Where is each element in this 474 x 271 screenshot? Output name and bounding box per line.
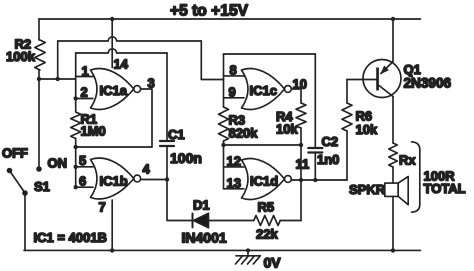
svg-text:SPKR: SPKR xyxy=(349,182,386,197)
gate IC1d (NOR) xyxy=(242,159,285,200)
resistor R3 xyxy=(219,107,229,141)
svg-text:1: 1 xyxy=(82,64,89,79)
resistor R1 xyxy=(71,112,81,139)
svg-text:R5: R5 xyxy=(258,200,275,215)
svg-text:Rx: Rx xyxy=(399,153,416,168)
junction rail/H1 xyxy=(37,77,41,81)
svg-text:ON: ON xyxy=(48,156,68,171)
wire pin12 stub xyxy=(224,166,245,168)
svg-text:C2: C2 xyxy=(322,134,339,149)
junction pin2 tie xyxy=(74,96,78,100)
junction R4 line/H3 xyxy=(299,143,303,147)
svg-text:IN4001: IN4001 xyxy=(182,230,227,246)
diode D1 IN4001 xyxy=(192,214,194,228)
svg-text:IC1d: IC1d xyxy=(250,174,278,189)
capacitor C1 xyxy=(160,140,174,142)
junction R4 line/pin11 wire xyxy=(299,178,303,182)
junction rail/pin14 xyxy=(110,17,114,21)
wire pin10 output to R4 xyxy=(291,89,301,103)
wire C1 bottom lead xyxy=(166,147,168,180)
wire pin4 output xyxy=(141,179,167,181)
speaker SPKR xyxy=(385,183,398,196)
OFF contact xyxy=(7,168,13,174)
wire pin11 node up to R6 xyxy=(346,131,348,180)
svg-text:IC1 = 4001B: IC1 = 4001B xyxy=(34,230,107,245)
svg-text:11: 11 xyxy=(296,157,310,172)
svg-text:OFF: OFF xyxy=(2,146,28,161)
svg-text:IC1b: IC1b xyxy=(100,174,128,189)
svg-text:12: 12 xyxy=(227,154,241,169)
wire B: IC1a in to C1 top (hop over pin14 line) xyxy=(76,49,167,53)
gate IC1b (NOR) xyxy=(91,158,134,199)
resistor R5 xyxy=(254,216,280,226)
resistor R2 xyxy=(35,40,45,70)
svg-text:9: 9 xyxy=(229,85,236,100)
wire S1 pole to 0V rail xyxy=(24,193,26,250)
wire pin14 from +V rail xyxy=(111,19,113,68)
svg-text:10k: 10k xyxy=(356,122,378,137)
svg-text:IC1c: IC1c xyxy=(250,83,277,98)
svg-text:13: 13 xyxy=(227,176,241,191)
wire D1 to R5 xyxy=(209,220,254,222)
junction pin5 tie xyxy=(74,165,78,169)
junction R3/H3/IC1d inputs xyxy=(221,143,225,147)
capacitor C2 xyxy=(308,147,322,149)
wire IC1c input node to C2 top xyxy=(224,53,316,55)
wire pin1 stub xyxy=(76,76,93,78)
resistor R4 xyxy=(296,103,306,128)
wire pin4 node down to D1 xyxy=(167,180,193,221)
wire Rx to speaker xyxy=(392,167,394,183)
transistor Q1 2N3906 xyxy=(363,60,401,98)
wire pin7 to 0V rail xyxy=(111,200,113,250)
wire pin5 stub xyxy=(76,166,93,168)
ON contact xyxy=(36,166,42,172)
wire: R1 bottom to IC1b inputs xyxy=(75,139,77,188)
S1 pole xyxy=(22,190,28,196)
junction speaker/0V rail xyxy=(391,248,395,252)
wire speaker to 0V rail xyxy=(392,196,394,250)
wire pin13 stub xyxy=(224,188,245,190)
svg-text:100k: 100k xyxy=(6,49,36,64)
svg-text:D1: D1 xyxy=(193,198,210,213)
svg-text:7: 7 xyxy=(99,200,106,215)
svg-text:3: 3 xyxy=(148,76,155,91)
wire H1 rail to IC1a input node xyxy=(39,78,76,80)
wire C1 top lead xyxy=(166,53,168,140)
wire: +V top rail xyxy=(39,18,421,20)
svg-text:4: 4 xyxy=(143,162,151,177)
junction wireA drop/H1 xyxy=(56,77,60,81)
wire R6 top to Q1 base xyxy=(346,80,348,104)
wire pin11 output to R6 branch xyxy=(291,179,347,181)
resistor R6 xyxy=(342,103,352,131)
wire pin8 stub xyxy=(224,75,245,77)
svg-text:10k: 10k xyxy=(276,122,298,137)
junction rail/emitter xyxy=(391,17,395,21)
bracket 100R total xyxy=(412,142,420,212)
svg-text:100n: 100n xyxy=(170,150,202,166)
junction C2/pin11 wire xyxy=(313,178,317,182)
svg-text:C1: C1 xyxy=(168,127,185,142)
wire pin6 stub xyxy=(76,186,93,188)
svg-text:1M0: 1M0 xyxy=(81,124,106,139)
resistor Rx xyxy=(389,143,398,167)
svg-text:8: 8 xyxy=(230,63,237,78)
wire A right drop to IC1c input vert xyxy=(201,41,223,80)
wire: left rail upper xyxy=(38,19,40,40)
junction pin6 tie xyxy=(74,185,78,189)
wire C2 top lead xyxy=(314,54,316,147)
wire H2: R1 bottom to pin3 node xyxy=(76,146,152,148)
wire R4 bottom vertical to R5 xyxy=(300,128,302,221)
wire A left drop xyxy=(57,41,59,79)
ground 0V xyxy=(247,250,249,255)
svg-text:0V: 0V xyxy=(264,255,282,271)
wire pin2 stub xyxy=(76,98,93,100)
wire Q1 emitter to +V rail xyxy=(392,19,394,62)
switch lever xyxy=(11,172,26,193)
wire H3: R3 bottom to R4 bottom xyxy=(224,144,302,146)
wire Q1 base lead xyxy=(347,79,376,81)
wire A: IC1a in to IC1c in (hop over pin14 line) xyxy=(58,37,202,41)
wire IC1c input tie vertical xyxy=(223,54,225,107)
wire Q1 collector to Rx xyxy=(392,97,394,144)
svg-text:5: 5 xyxy=(79,153,86,168)
wire: IC1a input tie vertical / to R1 xyxy=(75,53,77,112)
wire pin9 stub xyxy=(224,97,245,99)
wire C2 bottom lead xyxy=(314,154,316,181)
gate IC1a (NOR) xyxy=(91,69,134,110)
junction pin4/C1/D1 xyxy=(165,177,169,181)
wire R3 bottom to IC1d inputs xyxy=(223,141,225,189)
svg-text:14: 14 xyxy=(114,57,129,72)
svg-text:+5 to +15V: +5 to +15V xyxy=(170,3,249,20)
svg-text:2: 2 xyxy=(81,85,88,100)
wire: left rail to ON contact xyxy=(38,70,40,169)
svg-text:6: 6 xyxy=(79,174,86,189)
svg-text:TOTAL: TOTAL xyxy=(424,181,466,196)
svg-text:2N3906: 2N3906 xyxy=(404,76,452,91)
svg-text:1n0: 1n0 xyxy=(317,152,339,167)
svg-text:22k: 22k xyxy=(256,227,278,242)
junction pin7/0V rail xyxy=(110,248,114,252)
wire pin3 output down xyxy=(141,89,152,147)
svg-text:IC1a: IC1a xyxy=(100,83,128,98)
junction R1/H2/IC1b inputs xyxy=(74,145,78,149)
svg-text:820k: 820k xyxy=(229,126,259,141)
wire R5 to vertical xyxy=(280,220,301,222)
svg-text:S1: S1 xyxy=(34,179,50,194)
wire: 0V bottom rail xyxy=(24,249,421,251)
gate IC1c (NOR) xyxy=(242,69,285,110)
